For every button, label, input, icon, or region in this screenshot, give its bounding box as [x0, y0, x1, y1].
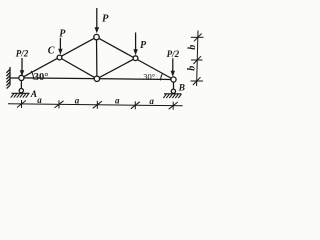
svg-text:P/2: P/2: [16, 49, 29, 59]
ground under B: [163, 94, 181, 98]
support link under A: [20, 81, 22, 89]
wire diagonal rightmid-center: [97, 58, 136, 79]
svg-text:30°: 30°: [143, 71, 155, 81]
hinge circle under B: [171, 89, 175, 93]
svg-text:B: B: [178, 84, 185, 94]
wall left support: [6, 67, 19, 89]
tick x=59: [58, 100, 60, 108]
force P arrow at apex: [95, 8, 100, 33]
dimension line bottom: [8, 100, 183, 110]
svg-text:a: a: [75, 95, 80, 105]
node A: [19, 75, 24, 80]
svg-text:P: P: [59, 29, 66, 40]
svg-text:a: a: [37, 95, 42, 105]
svg-text:a: a: [115, 95, 120, 105]
force P arrow at C: [58, 38, 62, 55]
force P/2 arrow at A: [20, 58, 24, 76]
dimension line right vertical: [191, 31, 204, 87]
hinge circle under A: [19, 89, 23, 93]
support link under B: [173, 82, 175, 89]
tick y=37.2: [191, 36, 204, 38]
node right mid: [133, 56, 138, 61]
tick x=97.3: [96, 101, 98, 109]
svg-text:C: C: [48, 46, 55, 57]
tick x=135.3: [134, 101, 136, 109]
node center bottom: [94, 76, 99, 81]
wire vertical apex-center: [96, 37, 98, 79]
wire bottom chord A-B: [21, 78, 173, 80]
node B: [171, 77, 176, 82]
svg-text:b: b: [187, 66, 198, 71]
ground under A: [11, 93, 30, 97]
wire diagonal C-center: [60, 58, 97, 79]
angle arc right: [161, 74, 163, 80]
force P arrow at right mid: [133, 33, 137, 56]
svg-text:a: a: [149, 96, 154, 106]
tick y=81: [191, 80, 204, 82]
tick x=21.5: [21, 100, 23, 108]
tick y=60: [191, 59, 203, 61]
wire top chord left A-apex: [21, 37, 96, 78]
svg-text:P: P: [102, 14, 109, 25]
angle arc left: [31, 71, 33, 79]
svg-text:A: A: [30, 90, 37, 100]
node C: [57, 55, 62, 60]
node apex: [94, 34, 99, 39]
force P/2 arrow at B: [171, 58, 175, 76]
svg-text:P: P: [140, 40, 147, 51]
svg-text:P/2: P/2: [167, 49, 180, 59]
svg-text:30°: 30°: [34, 72, 49, 83]
tick x=173.2: [172, 102, 174, 110]
svg-text:b: b: [187, 45, 198, 50]
wire top chord right apex-B: [97, 37, 174, 79]
